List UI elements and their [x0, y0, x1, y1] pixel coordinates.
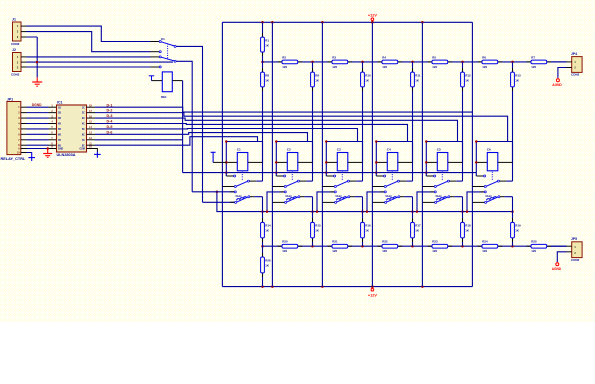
svg-text:10uH: 10uH [485, 195, 491, 198]
svg-text:1B: 1B [58, 107, 61, 109]
svg-text:120: 120 [382, 65, 387, 69]
power port AGND top [552, 78, 562, 87]
inductor L6 [485, 195, 496, 200]
node bottom chain junction C4 [411, 245, 414, 248]
switch contact lower throw D channel 1 [203, 201, 237, 203]
wire J1 pin3 down to ground [27, 37, 38, 77]
switch arm lower channel 3 [337, 196, 350, 202]
wire channel 6 bus vertical [471, 22, 473, 286]
resistor R4 [378, 55, 403, 69]
svg-text:R10: R10 [365, 73, 371, 77]
node bottom chain junction C6 [511, 245, 514, 248]
node top chain junction C3 [361, 61, 364, 64]
svg-text:DGND: DGND [32, 103, 42, 107]
node bottom bus junction V2 [271, 285, 274, 288]
resistor R8 [261, 68, 270, 91]
node coil C4 left junction [375, 161, 378, 164]
wire column 6 upper [512, 62, 514, 181]
resistor R12 [461, 68, 471, 91]
switch contact upper throw B channel 6 [472, 186, 486, 188]
switch contact lower throw D channel 5 [422, 201, 436, 203]
wire K1 pole A out [176, 46, 202, 202]
switch contact lower throw C channel 3 [317, 191, 336, 212]
power port +12V top [368, 13, 377, 22]
node lower line junction C4 [411, 210, 414, 213]
svg-text:J2: J2 [12, 48, 16, 52]
switch contact upper throw B channel 4 [372, 186, 386, 188]
node lower line junction C1 [261, 210, 264, 213]
power bar at JP1 pin 10 [28, 153, 35, 161]
resistor R18 [461, 218, 471, 242]
node top bus junction V2 [271, 21, 274, 24]
resistor R1 [261, 33, 270, 56]
relay coil C1 [237, 148, 248, 171]
wire top resistor chain [263, 61, 567, 63]
svg-text:R4: R4 [382, 55, 386, 59]
svg-text:120: 120 [432, 65, 437, 69]
node lower line riser junction channel 2 [266, 210, 269, 213]
power bar for relay coils [211, 152, 216, 162]
inductor L3 [335, 195, 346, 200]
svg-text:GND: GND [58, 149, 63, 151]
svg-text:R5: R5 [432, 55, 436, 59]
wire relay C1 loop [226, 142, 262, 177]
svg-text:+12V: +12V [368, 13, 377, 17]
switch contact upper throw B channel 2 [272, 186, 286, 188]
resistor R13 [511, 68, 521, 91]
svg-text:COM: COM [79, 149, 84, 151]
node rail junction channel 3 [325, 171, 328, 174]
node top bus junction V5 [421, 21, 424, 24]
switch contact upper throw A channel 3 [326, 175, 335, 177]
resistor R22 [378, 240, 403, 254]
resistor R17 [411, 218, 421, 242]
resistor R26 [261, 253, 271, 277]
switch contact upper throw A channel 4 [376, 175, 385, 177]
node bottom chain junction C3 [361, 245, 364, 248]
wire coil C4 right pin [398, 161, 413, 163]
svg-text:R19: R19 [515, 224, 521, 228]
wire JP1 pin 6 to IC1 pin 6 [27, 133, 49, 135]
switch contact upper throw A channel 2 [276, 175, 285, 177]
wire JP1 pin 10 to power bar [27, 152, 32, 154]
svg-text:R15: R15 [315, 224, 321, 228]
switch arm lower channel 1 [237, 196, 250, 202]
wire K1 pole B out [176, 61, 192, 192]
svg-text:120: 120 [282, 65, 287, 69]
node loop corner C5 [425, 140, 428, 143]
connector JP4 CON2 [571, 52, 582, 77]
wire channel 5 bus vertical [421, 22, 423, 286]
wire D-3 from IC1 to relay C5 coil loop [87, 118, 458, 141]
wire column 1 lower [262, 197, 264, 287]
wire relay coil supply rail [183, 172, 477, 174]
wire column 3 lower [362, 197, 364, 247]
node bottom bus junction V5 [421, 285, 424, 288]
wire channel 2 bus vertical [271, 22, 273, 286]
svg-text:R24: R24 [482, 240, 488, 244]
resistor R3 [328, 55, 353, 69]
switch contact upper throw A channel 6 [476, 175, 485, 177]
node rail junction channel 5 [425, 171, 428, 174]
wire coil C6 right pin [498, 161, 513, 163]
ground DGND at IC1 [43, 149, 52, 158]
node top bus junction R1 column [261, 21, 264, 24]
svg-text:3C: 3C [82, 118, 85, 120]
wire coil C3 left pin [326, 161, 337, 163]
wire coil C5 left pin [426, 161, 437, 163]
wire pole lower channel 1 [250, 196, 263, 198]
wire pole upper channel 6 [500, 180, 513, 182]
wire column 5 upper [462, 62, 464, 181]
svg-text:CON3: CON3 [11, 42, 20, 46]
mechanical link C2 [291, 172, 293, 181]
wire power bar to coil C1 [213, 161, 226, 163]
svg-text:JP4: JP4 [571, 52, 577, 56]
resistor R9 [311, 68, 320, 91]
svg-text:4B: 4B [58, 123, 61, 126]
resistor R19 [511, 218, 521, 242]
node lower line junction C6 [511, 210, 514, 213]
node loop corner C6 [475, 140, 478, 143]
wire JP5 pin 2 to AGND [557, 252, 571, 262]
wire coil C6 left pin [476, 161, 487, 163]
switch contact upper throw A channel 5 [426, 175, 435, 177]
resistor R23 [428, 240, 453, 254]
switch arm lower channel 2 [287, 196, 300, 202]
node rail junction channel 1 [225, 171, 228, 174]
svg-text:120: 120 [482, 249, 487, 253]
svg-text:+12V: +12V [368, 293, 377, 297]
svg-text:C5: C5 [437, 148, 441, 152]
resistor R16 [361, 218, 371, 242]
node coil C5 left junction [425, 161, 428, 164]
resistor R5 [428, 55, 453, 69]
svg-text:AGND: AGND [552, 267, 562, 271]
op-amp driver IC1 ULN2803A [51, 101, 92, 157]
switch contact lower throw C channel 6 [467, 191, 486, 212]
node +12V bottom junction [371, 285, 374, 288]
svg-text:10uH: 10uH [285, 195, 291, 198]
svg-text:R17: R17 [415, 224, 421, 228]
wire relay C3 loop [326, 142, 362, 177]
wire pole upper channel 2 [300, 180, 313, 182]
wire pole upper channel 1 [250, 180, 263, 182]
svg-text:10uH: 10uH [385, 195, 391, 198]
wire D-1 from IC1 across channels [87, 107, 473, 112]
svg-text:C6: C6 [487, 148, 491, 152]
node lower line riser junction channel 4 [366, 210, 369, 213]
svg-text:JP1: JP1 [7, 98, 13, 102]
node rail junction channel 4 [375, 171, 378, 174]
node lower line riser junction channel 3 [316, 210, 319, 213]
connector JP1 RELAY_CTRL [1, 98, 27, 161]
node loop corner C3 [325, 140, 328, 143]
svg-text:ULN2803A: ULN2803A [57, 153, 76, 157]
svg-text:10uH: 10uH [435, 195, 441, 198]
wire pole upper channel 4 [400, 180, 413, 182]
node loop corner C4 [375, 140, 378, 143]
node coil C6 left junction [475, 161, 478, 164]
resistor R25 [527, 240, 552, 254]
switch arm upper channel 2 [286, 180, 299, 186]
switch arm upper channel 6 [486, 180, 499, 186]
svg-text:R1: R1 [265, 38, 269, 42]
resistor R7 [527, 55, 552, 69]
svg-text:C3: C3 [337, 148, 341, 152]
node J2 pin2 junction [36, 61, 39, 64]
wire JP1 pin 5 to IC1 pin 5 [27, 128, 49, 130]
wire column 5 lower [462, 197, 464, 247]
svg-text:R18: R18 [465, 224, 471, 228]
wire JP1 pin 2 to IC1 pin 2 [27, 112, 49, 114]
relay contacts K1 [151, 37, 177, 68]
node lower line riser junction channel 5 [416, 210, 419, 213]
wire RE1 coil left [152, 80, 163, 82]
ground GND input [32, 77, 42, 86]
resistor R20 [278, 240, 303, 254]
wire +12V bottom bus [222, 286, 472, 288]
svg-text:120: 120 [332, 65, 337, 69]
power port AGND bottom [552, 262, 562, 271]
wire J1 pin1 to K1 throw A1 [27, 26, 151, 41]
switch arm upper channel 5 [436, 180, 449, 186]
svg-text:R7: R7 [531, 55, 535, 59]
wire pole lower channel 4 [400, 196, 413, 198]
wire channel 4 bus vertical [371, 22, 373, 286]
node lower line input junction [216, 191, 219, 194]
node rail junction channel 2 [275, 171, 278, 174]
node lower line junction C3 [361, 210, 364, 213]
svg-text:120: 120 [482, 65, 487, 69]
wire channel 1 bus vertical [221, 22, 223, 286]
resistor R21 [328, 240, 353, 254]
svg-text:120: 120 [282, 249, 287, 253]
switch contact lower throw C channel 2 [267, 191, 286, 212]
svg-text:R3: R3 [332, 55, 336, 59]
relay coil C3 [337, 148, 348, 171]
svg-text:7B: 7B [58, 140, 61, 142]
node loop corner C1 [225, 140, 228, 143]
svg-text:R21: R21 [332, 240, 338, 244]
switch contact lower throw C channel 5 [417, 191, 436, 212]
switch contact upper throw B channel 1 [222, 186, 236, 188]
svg-text:CON2: CON2 [571, 258, 580, 262]
switch contact upper throw B channel 3 [322, 186, 336, 188]
node bottom chain junction C5 [461, 245, 464, 248]
relay coil C6 [487, 148, 498, 171]
node top chain junction C4 [411, 61, 414, 64]
svg-text:K1: K1 [161, 37, 165, 41]
svg-text:120: 120 [531, 249, 536, 253]
svg-text:RELAY_CTRL: RELAY_CTRL [1, 157, 26, 161]
svg-text:C1: C1 [237, 148, 241, 152]
wire column 4 lower [412, 197, 414, 247]
node DGND junction [46, 147, 49, 150]
wire JP1 pin 4 to IC1 pin 4 [27, 122, 49, 124]
svg-text:120: 120 [432, 249, 437, 253]
svg-text:2B: 2B [58, 113, 61, 115]
node lower line riser junction channel 6 [466, 210, 469, 213]
wire relay C6 loop [476, 142, 512, 177]
inductor L1 [235, 195, 246, 200]
wire IC1 COM pin 10 to power bar [87, 149, 98, 152]
resistor R2 [278, 55, 303, 69]
wire bottom resistor chain [263, 245, 567, 247]
node top chain junction C2 [311, 61, 314, 64]
node loop corner C2 [275, 140, 278, 143]
switch arm upper channel 1 [236, 180, 249, 186]
wire pole upper channel 5 [450, 180, 463, 182]
svg-text:R16: R16 [365, 224, 371, 228]
svg-text:R2: R2 [282, 55, 286, 59]
power port +12V bottom [368, 287, 377, 298]
power bar at IC1 COM [94, 152, 101, 158]
node top bus junction V4 [371, 21, 374, 24]
node bottom bus junction V4 [371, 285, 374, 288]
resistor R15 [311, 218, 321, 242]
relay coil C5 [437, 148, 448, 171]
wire J2 pin3 to K1 throw B2 [27, 66, 151, 68]
wire relay C4 loop [376, 142, 412, 177]
svg-text:1C: 1C [82, 107, 85, 109]
svg-text:C2: C2 [287, 148, 291, 152]
connector JP5 CON2 [571, 237, 582, 262]
svg-text:R11: R11 [415, 73, 421, 77]
wire J1 pin2 to K1 throw A2 [27, 32, 151, 52]
switch arm lower channel 6 [487, 196, 500, 202]
svg-text:5B: 5B [58, 129, 61, 131]
node bottom bus junction V3 [321, 285, 324, 288]
connector J2 CON3 [11, 48, 27, 77]
svg-text:4C: 4C [82, 123, 85, 126]
svg-text:CON2: CON2 [571, 73, 580, 77]
mechanical link C5 [441, 172, 443, 181]
switch arm lower channel 5 [437, 196, 450, 202]
svg-text:5C: 5C [82, 129, 85, 131]
wire JP1 pin 1 to IC1 pin 1 [27, 106, 49, 108]
svg-text:8B: 8B [58, 145, 61, 147]
wire coil C3 right pin [348, 161, 363, 163]
switch contact lower throw D channel 4 [372, 201, 386, 203]
relay coil RE1 [161, 72, 172, 99]
node lower line junction C2 [311, 210, 314, 213]
wire pole lower channel 2 [300, 196, 313, 198]
relay coil C2 [287, 148, 298, 171]
wire IC1 pin 11 to relay C1 coil loop (row 8) [87, 137, 258, 146]
switch contact lower throw D channel 6 [472, 201, 486, 203]
svg-text:120: 120 [531, 65, 536, 69]
svg-text:R14: R14 [265, 224, 271, 228]
wire column 2 lower [312, 197, 314, 247]
svg-text:JP5: JP5 [571, 237, 577, 241]
wire column 4 upper [412, 62, 414, 181]
switch contact upper throw B channel 5 [422, 186, 436, 188]
switch contact lower throw D channel 3 [322, 201, 336, 203]
svg-text:8C: 8C [82, 145, 85, 147]
switch contact lower throw D channel 2 [272, 201, 286, 203]
svg-text:R26: R26 [265, 258, 271, 262]
node coil C2 left junction [275, 161, 278, 164]
wire top chain to JP4 pin 1 [551, 61, 572, 63]
svg-text:R20: R20 [282, 240, 288, 244]
wire relay C5 loop [426, 142, 462, 177]
wire D-6 from IC1 to relay C2 coil loop [87, 133, 308, 142]
node top bus junction V3 [321, 21, 324, 24]
svg-text:R22: R22 [382, 240, 388, 244]
inductor L4 [385, 195, 396, 200]
wire pole lower channel 5 [450, 196, 463, 198]
inductor L2 [285, 195, 296, 200]
connector J1 CON3 [11, 17, 27, 46]
svg-text:R8: R8 [265, 73, 269, 77]
wire column 2 upper [312, 62, 314, 181]
svg-text:R9: R9 [315, 73, 319, 77]
svg-text:120: 120 [382, 249, 387, 253]
node bottom chain junction C2 [311, 245, 314, 248]
svg-text:R25: R25 [531, 240, 537, 244]
relay coil C4 [387, 148, 398, 171]
node top chain junction C1 [261, 61, 264, 64]
wire JP1 pin 8 to IC1 pin 8 [27, 144, 49, 146]
wire J2 pin2 to ground [27, 61, 174, 63]
svg-text:R23: R23 [432, 240, 438, 244]
switch arm upper channel 3 [336, 180, 349, 186]
resistor R11 [411, 68, 421, 91]
svg-text:J1: J1 [12, 17, 16, 21]
wire +12V top bus [222, 21, 472, 23]
wire column 3 upper [362, 62, 364, 181]
wire JP4 pin 2 to AGND [558, 68, 572, 78]
wire JP1 pin 9 to IC1 GND [27, 148, 57, 150]
wire coil C5 right pin [448, 161, 463, 163]
switch arm lower channel 4 [387, 196, 400, 202]
node top chain junction C5 [461, 61, 464, 64]
wire pole upper channel 3 [350, 180, 363, 182]
wire coil C2 right pin [298, 161, 313, 163]
svg-text:10uH: 10uH [335, 195, 341, 198]
resistor R6 [478, 55, 503, 69]
wire relay C2 loop [276, 142, 312, 177]
resistor R24 [478, 240, 503, 254]
wire JP1 pin 3 to IC1 pin 3 [27, 117, 49, 119]
mechanical link C6 [491, 172, 493, 181]
mechanical link C3 [341, 172, 343, 181]
mechanical link C1 [241, 172, 243, 181]
wire JP1 pin 7 to IC1 pin 7 [27, 139, 49, 141]
wire coil C1 right pin [248, 161, 263, 163]
wire pole lower channel 3 [350, 196, 363, 198]
svg-text:7C: 7C [82, 140, 85, 142]
wire RE1 coil right [172, 80, 182, 82]
svg-text:3B: 3B [58, 118, 61, 120]
wire column 1 upper [262, 22, 264, 181]
wire J2 pin1 to K1 throw B1 [27, 56, 151, 58]
wire switched lower line [217, 192, 513, 212]
svg-text:AGND: AGND [552, 83, 562, 87]
resistor R14 [261, 218, 271, 242]
svg-text:CON3: CON3 [11, 73, 20, 77]
wire IC1 pin 12 to RE1 (row 7) [87, 139, 183, 141]
wire column 6 lower [512, 197, 514, 247]
svg-text:IC1: IC1 [57, 101, 63, 105]
svg-text:6C: 6C [82, 134, 85, 136]
svg-text:120: 120 [332, 249, 337, 253]
wire D-5 from IC1 to relay C3 coil loop [87, 129, 358, 142]
wire bottom chain to JP5 pin 1 [551, 245, 572, 247]
node +12V top junction [371, 21, 374, 24]
svg-text:RE1: RE1 [161, 95, 167, 99]
